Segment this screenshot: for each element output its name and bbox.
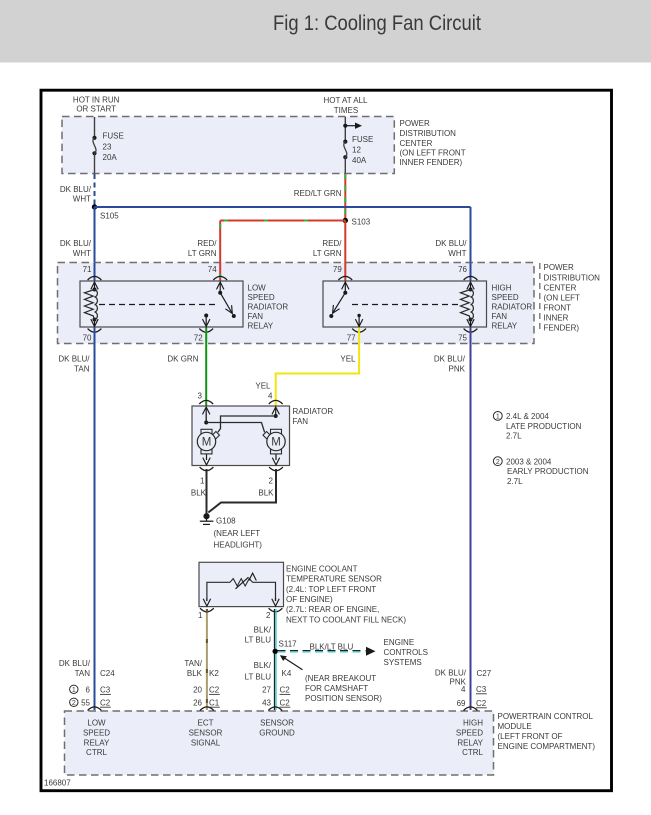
relay low speed box: [80, 281, 243, 327]
wire DK BLU/TAN pin 70 to PCM: [94, 328, 96, 711]
pin exit ECT pin 1 (arrow + bracket): [206, 598, 208, 601]
arrow feed to other circuits: [345, 125, 355, 127]
svg-text:26: 26: [193, 698, 202, 707]
svg-text:6: 6: [86, 686, 91, 695]
PCM entry bracket col3: [268, 707, 282, 711]
svg-text:DK BLU/: DK BLU/: [60, 185, 92, 194]
svg-text:(ON LEFT: (ON LEFT: [544, 294, 581, 303]
svg-text:LATE PRODUCTION: LATE PRODUCTION: [506, 422, 582, 431]
svg-text:DK BLU/: DK BLU/: [435, 669, 467, 678]
svg-text:(NEAR LEFT: (NEAR LEFT: [214, 529, 261, 538]
svg-text:EARLY PRODUCTION: EARLY PRODUCTION: [507, 467, 589, 476]
svg-text:74: 74: [208, 265, 217, 274]
svg-text:C3: C3: [100, 686, 111, 695]
node S105: [92, 204, 97, 209]
svg-text:WHT: WHT: [448, 249, 466, 258]
svg-text:2.7L: 2.7L: [507, 477, 523, 486]
svg-text:2: 2: [72, 700, 76, 707]
svg-text:HOT AT ALL: HOT AT ALL: [323, 96, 368, 105]
svg-text:SPEED: SPEED: [248, 293, 275, 302]
svg-text:FUSE: FUSE: [103, 132, 124, 141]
svg-text:NEXT TO COOLANT FILL NECK): NEXT TO COOLANT FILL NECK): [286, 615, 406, 624]
powertrain control module dashed box: [65, 711, 494, 775]
svg-text:76: 76: [458, 265, 467, 274]
svg-text:RELAY: RELAY: [248, 322, 274, 331]
PCM entry bracket col2: [200, 707, 214, 711]
wire DK GRN pin 72 to fan pin 3: [205, 328, 207, 406]
svg-text:2.4L & 2004: 2.4L & 2004: [506, 412, 549, 421]
node S103: [343, 218, 348, 223]
svg-text:TAN: TAN: [74, 365, 90, 374]
wire fuse12 lead: [344, 117, 346, 141]
svg-text:1: 1: [496, 414, 500, 421]
high speed relay switch blade: [333, 293, 346, 314]
svg-text:RELAY: RELAY: [457, 738, 483, 747]
svg-text:55: 55: [81, 698, 90, 707]
svg-text:77: 77: [347, 334, 356, 343]
wire BLK/LT BLU ECT pin 2 to S117: [274, 609, 276, 649]
pin entry fan pin 4 (bracket + arrow): [269, 400, 283, 404]
svg-text:CONTROLS: CONTROLS: [384, 648, 428, 657]
svg-text:DK BLU/: DK BLU/: [60, 239, 92, 248]
wire TAN/BLK ECT pin 1 to PCM: [206, 609, 208, 710]
svg-text:YEL: YEL: [255, 382, 271, 391]
svg-text:SENSOR: SENSOR: [260, 719, 294, 728]
svg-text:70: 70: [83, 334, 92, 343]
svg-text:LOW: LOW: [87, 719, 106, 728]
svg-text:CENTER: CENTER: [544, 284, 577, 293]
svg-text:HOT IN RUN: HOT IN RUN: [73, 96, 120, 105]
pin entry pin 74 (bracket + arrow): [213, 276, 227, 280]
svg-text:HIGH: HIGH: [492, 284, 512, 293]
svg-text:(ON LEFT FRONT: (ON LEFT FRONT: [400, 149, 466, 158]
svg-text:FOR CAMSHAFT: FOR CAMSHAFT: [305, 684, 368, 693]
wire stub RED/LT GRN into pin 79: [344, 263, 346, 281]
svg-text:12: 12: [352, 146, 361, 155]
svg-text:DK BLU/: DK BLU/: [435, 239, 467, 248]
ECT internal wiring: [207, 582, 230, 601]
high speed relay switch common pin 79: [343, 291, 347, 295]
svg-text:69: 69: [457, 699, 466, 708]
node S117: [273, 649, 278, 654]
bracket before PDC label: [539, 263, 541, 332]
power distribution center (relay) dashed box: [58, 263, 535, 344]
svg-text:LOW: LOW: [248, 284, 267, 293]
svg-text:C2: C2: [100, 698, 111, 707]
motor M2 (right): [263, 429, 285, 454]
svg-text:C3: C3: [476, 685, 487, 694]
svg-text:4: 4: [461, 685, 466, 694]
svg-text:RED/: RED/: [197, 239, 217, 248]
svg-text:C1: C1: [209, 698, 220, 707]
wire YEL pin 77 to fan pin 4: [276, 328, 359, 406]
pin exit pin 70 (arrow + bracket): [94, 320, 96, 327]
svg-text:BLK: BLK: [191, 488, 207, 497]
svg-text:FAN: FAN: [492, 312, 508, 321]
svg-text:166807: 166807: [44, 779, 71, 788]
svg-text:HIGH: HIGH: [463, 719, 483, 728]
svg-text:RED/: RED/: [322, 239, 342, 248]
wire stub DK BLU/WHT into pin 71: [94, 263, 96, 281]
svg-text:79: 79: [333, 265, 342, 274]
wire blue bus S105 right: [95, 206, 471, 208]
wire stub DK BLU/WHT into pin 76: [470, 263, 472, 281]
svg-text:FUSE: FUSE: [352, 135, 373, 144]
svg-text:WHT: WHT: [73, 195, 91, 204]
svg-text:OF ENGINE): OF ENGINE): [286, 595, 333, 604]
svg-text:OR START: OR START: [76, 105, 116, 114]
svg-text:POWERTRAIN CONTROL: POWERTRAIN CONTROL: [498, 712, 594, 721]
svg-text:PNK: PNK: [449, 365, 466, 374]
svg-text:DISTRIBUTION: DISTRIBUTION: [400, 129, 457, 138]
svg-text:72: 72: [194, 334, 203, 343]
svg-text:4: 4: [268, 392, 273, 401]
wire fuse23 lead: [94, 117, 96, 137]
svg-text:MODULE: MODULE: [498, 722, 532, 731]
fan pin 4 internal wiring: [275, 414, 277, 416]
svg-text:C2: C2: [209, 686, 220, 695]
svg-text:23: 23: [103, 143, 112, 152]
svg-text:TAN: TAN: [75, 669, 91, 678]
PCM entry bracket col4: [464, 707, 478, 711]
svg-text:YEL: YEL: [340, 355, 356, 364]
pin entry fan pin 3 (bracket + arrow): [199, 400, 213, 404]
svg-text:20: 20: [193, 686, 202, 695]
wire stub RED/LT GRN into pin 74: [219, 263, 221, 281]
svg-text:FAN: FAN: [248, 312, 264, 321]
svg-text:71: 71: [83, 265, 92, 274]
pin exit fan pin 1 (arrow + bracket): [206, 454, 208, 460]
relay coil high speed relay: [469, 288, 473, 292]
svg-text:43: 43: [262, 698, 271, 707]
svg-text:CTRL: CTRL: [86, 748, 107, 757]
fuse F12 symbol: [343, 140, 347, 144]
svg-text:POWER: POWER: [400, 119, 430, 128]
svg-text:LT GRN: LT GRN: [313, 249, 342, 258]
wire red branch S103 left: [220, 220, 345, 222]
svg-text:S103: S103: [352, 218, 371, 227]
svg-text:40A: 40A: [352, 156, 367, 165]
svg-text:K2: K2: [209, 669, 219, 678]
node fuse12 feed tap: [343, 124, 347, 128]
low speed relay switch blade: [220, 293, 232, 314]
low speed relay pin 72 terminal: [204, 314, 208, 318]
svg-text:G108: G108: [216, 517, 236, 526]
svg-text:3: 3: [198, 392, 203, 401]
svg-text:2: 2: [266, 611, 271, 620]
pin entry pin 76 (bracket + arrow): [464, 276, 478, 280]
svg-text:HEADLIGHT): HEADLIGHT): [214, 541, 263, 550]
svg-text:DISTRIBUTION: DISTRIBUTION: [544, 273, 601, 282]
note 1 circled: [493, 412, 502, 421]
svg-text:C27: C27: [477, 669, 492, 678]
svg-text:SPEED: SPEED: [492, 293, 519, 302]
diagram outer frame: [41, 90, 612, 791]
svg-text:2.7L: 2.7L: [506, 432, 522, 441]
motor M1 (left): [197, 429, 219, 454]
note ref 1 circled (col 1): [70, 685, 78, 693]
wire fuse12 to box bottom: [344, 157, 346, 173]
wire red down to pin 79: [344, 221, 346, 281]
svg-text:CTRL: CTRL: [462, 748, 483, 757]
pin exit pin 75 (arrow + bracket): [470, 320, 472, 327]
wire blue down to pin 71: [94, 207, 96, 281]
wire fuse23 to box bottom: [94, 153, 96, 173]
engine coolant temperature sensor box: [199, 562, 284, 606]
svg-text:1: 1: [200, 477, 205, 486]
radiator fan box: [192, 406, 290, 466]
svg-text:POSITION SENSOR): POSITION SENSOR): [305, 694, 382, 703]
wire DK BLU/PNK pin 75 to PCM: [470, 328, 472, 711]
low speed relay dashed link: [99, 304, 215, 306]
svg-text:DK BLU/: DK BLU/: [58, 355, 90, 364]
wire BLK fan pin 1 to ground: [206, 469, 208, 514]
svg-text:BLK/: BLK/: [254, 661, 272, 670]
svg-text:FAN: FAN: [293, 417, 309, 426]
svg-text:K4: K4: [282, 669, 292, 678]
pin exit 77 (arrow + bracket): [358, 316, 360, 327]
svg-text:27: 27: [262, 686, 271, 695]
fan pin 3 internal wiring: [205, 414, 207, 423]
svg-text:2: 2: [496, 459, 500, 466]
high speed relay pin 77 terminal: [357, 314, 360, 317]
wire BLK fan pin 2 to ground: [208, 469, 276, 513]
ground G108: [200, 513, 214, 524]
svg-text:INNER FENDER): INNER FENDER): [400, 158, 463, 167]
svg-text:DK BLU/: DK BLU/: [59, 659, 91, 668]
wire BLK/LT BLU S117 to engine controls (dashed): [278, 650, 366, 652]
svg-text:ENGINE COOLANT: ENGINE COOLANT: [286, 565, 358, 574]
relay coil low speed relay: [93, 288, 97, 292]
svg-text:75: 75: [458, 334, 467, 343]
svg-text:RADIATOR: RADIATOR: [492, 303, 533, 312]
note ref 2 circled (col 1): [70, 698, 78, 706]
svg-text:(LEFT FRONT OF: (LEFT FRONT OF: [498, 732, 563, 741]
wire blue down to pin 76: [470, 207, 472, 281]
wire DK BLU/WHT dashed fuse23 to S105: [94, 174, 96, 206]
svg-text:S117: S117: [279, 640, 298, 649]
svg-text:INNER: INNER: [544, 314, 569, 323]
pin exit fan pin 2 (arrow + bracket): [275, 454, 277, 460]
svg-text:CENTER: CENTER: [400, 139, 433, 148]
breakout callout arrow: [284, 658, 303, 670]
svg-text:RELAY: RELAY: [492, 322, 518, 331]
pin exit 72 (arrow + bracket): [205, 316, 207, 327]
svg-text:LT BLU: LT BLU: [245, 636, 272, 645]
svg-text:BLK/LT BLU: BLK/LT BLU: [310, 643, 354, 652]
relay high speed box: [323, 281, 487, 327]
svg-text:1: 1: [198, 611, 203, 620]
svg-text:S105: S105: [100, 212, 119, 221]
pin exit ECT pin 2 (arrow + bracket): [275, 598, 277, 601]
svg-text:C2: C2: [280, 686, 291, 695]
pin entry pin 71 (bracket + arrow): [88, 276, 102, 280]
svg-text:(NEAR BREAKOUT: (NEAR BREAKOUT: [305, 674, 376, 683]
svg-text:ECT: ECT: [198, 719, 214, 728]
svg-text:POWER: POWER: [544, 263, 574, 272]
svg-text:(2.7L: REAR OF ENGINE,: (2.7L: REAR OF ENGINE,: [286, 605, 379, 614]
svg-text:BLK: BLK: [258, 488, 274, 497]
svg-text:DK GRN: DK GRN: [167, 355, 198, 364]
svg-text:DK BLU/: DK BLU/: [434, 355, 466, 364]
power distribution center (fuse) dashed box: [62, 117, 394, 174]
high speed relay dashed link: [352, 304, 462, 306]
svg-text:GROUND: GROUND: [259, 729, 295, 738]
svg-text:M: M: [202, 437, 212, 449]
svg-text:C24: C24: [100, 669, 115, 678]
svg-text:TEMPERATURE SENSOR: TEMPERATURE SENSOR: [286, 575, 382, 584]
svg-text:TIMES: TIMES: [334, 106, 358, 115]
svg-text:RADIATOR: RADIATOR: [248, 303, 289, 312]
svg-text:WHT: WHT: [73, 249, 91, 258]
svg-text:ENGINE COMPARTMENT): ENGINE COMPARTMENT): [498, 742, 596, 751]
pin entry pin 79 (bracket + arrow): [338, 276, 352, 280]
svg-text:RED/LT GRN: RED/LT GRN: [294, 189, 342, 198]
svg-text:2003 & 2004: 2003 & 2004: [506, 457, 552, 466]
svg-text:FENDER): FENDER): [544, 323, 580, 332]
arrow to engine controls systems: [366, 647, 376, 656]
wire red down to pin 74: [219, 221, 221, 281]
PCM entry bracket col1: [88, 707, 102, 711]
svg-text:SENSOR: SENSOR: [189, 729, 223, 738]
svg-text:LT GRN: LT GRN: [188, 249, 217, 258]
svg-text:SPEED: SPEED: [83, 729, 110, 738]
svg-text:C2: C2: [476, 699, 487, 708]
low speed relay switch common pin 74: [218, 291, 222, 295]
fuse F23 symbol: [92, 136, 96, 140]
wire BLK/LT BLU S117 down to PCM: [274, 654, 276, 710]
svg-text:SYSTEMS: SYSTEMS: [384, 658, 422, 667]
svg-text:FRONT: FRONT: [544, 304, 572, 313]
svg-text:BLK: BLK: [187, 669, 203, 678]
svg-text:SPEED: SPEED: [456, 729, 483, 738]
svg-text:C2: C2: [280, 698, 291, 707]
svg-text:ENGINE: ENGINE: [384, 638, 415, 647]
svg-text:20A: 20A: [103, 153, 118, 162]
svg-text:1: 1: [72, 687, 76, 694]
svg-text:(2.4L: TOP LEFT FRONT: (2.4L: TOP LEFT FRONT: [286, 585, 376, 594]
svg-text:M: M: [271, 437, 281, 449]
svg-text:RADIATOR: RADIATOR: [293, 407, 334, 416]
svg-text:LT BLU: LT BLU: [245, 673, 272, 682]
thermistor symbol: [230, 579, 253, 586]
svg-text:TAN/: TAN/: [184, 659, 202, 668]
svg-text:BLK/: BLK/: [254, 626, 272, 635]
svg-text:Fig 1: Cooling Fan Circuit: Fig 1: Cooling Fan Circuit: [273, 11, 481, 35]
wire RED/LT GRN dashed fuse12 to S103: [344, 174, 346, 219]
svg-text:2: 2: [269, 477, 274, 486]
header bar: [0, 0, 651, 63]
svg-text:RELAY: RELAY: [84, 738, 110, 747]
svg-text:SIGNAL: SIGNAL: [191, 738, 221, 747]
note 2 circled: [493, 457, 502, 466]
